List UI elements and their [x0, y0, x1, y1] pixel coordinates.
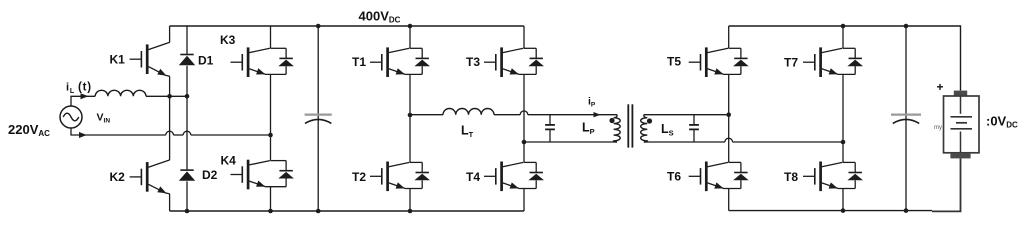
- transformer secondary dot: [647, 118, 652, 123]
- label D2: [202, 168, 218, 182]
- transformer primary winding: [614, 115, 621, 142]
- label T6: [667, 170, 681, 184]
- arrow iL current: [81, 93, 89, 99]
- label 220VAC: [8, 122, 50, 138]
- junction dots output bottom rail: [841, 208, 909, 213]
- wire secondary top: [644, 114, 729, 116]
- svg-text:T2: T2: [352, 170, 366, 184]
- label K1: [110, 53, 126, 67]
- wire K3K4 midpoint: [270, 74, 272, 160]
- transistor K1: [130, 42, 170, 76]
- wire dc bus top rail: [170, 25, 524, 27]
- label LP: [582, 121, 595, 137]
- junction dots top rail: [316, 24, 412, 29]
- wire output bottom rail: [729, 210, 932, 212]
- svg-text:+: +: [937, 80, 944, 94]
- wire T7 collector: [842, 26, 844, 48]
- battery plus sign: [937, 80, 944, 94]
- transistor T7: [803, 47, 863, 77]
- wire source top: [71, 96, 95, 106]
- transistor K2: [130, 160, 170, 194]
- transistor T8: [803, 162, 863, 192]
- label T7: [784, 56, 798, 70]
- transformer secondary winding: [641, 115, 648, 142]
- wire T1T2 midpoint: [409, 74, 411, 162]
- capacitor Cdc curved plate: [305, 119, 331, 123]
- label K2: [110, 170, 126, 184]
- svg-text:K4: K4: [221, 154, 237, 168]
- label T5: [667, 55, 681, 69]
- wire dc bus bottom rail: [170, 210, 524, 212]
- wire T3 collector: [523, 26, 525, 48]
- ac source 220VAC: [60, 106, 82, 128]
- transistor K3: [231, 47, 294, 77]
- svg-text:T3: T3: [466, 55, 480, 69]
- label LS: [661, 122, 674, 138]
- transistor K4: [231, 160, 294, 190]
- wire K1 emitter to node: [169, 76, 171, 96]
- capacitor Cp plates: [545, 125, 555, 129]
- transistor T6: [689, 162, 749, 192]
- arrow bottom wire: [79, 132, 87, 138]
- inductor input filter: [95, 90, 146, 96]
- capacitor Cdc plate: [305, 113, 332, 115]
- transistor T2: [370, 162, 430, 192]
- wire cap primary top stub: [549, 115, 551, 124]
- wire secondary bottom to T7T8: [733, 141, 844, 143]
- wire K4 emitter: [270, 187, 272, 211]
- svg-text:K1: K1: [110, 53, 126, 67]
- junction node phase B: [268, 133, 273, 138]
- transformer primary dot: [609, 118, 614, 123]
- label T2: [352, 170, 366, 184]
- svg-text:K2: K2: [110, 170, 126, 184]
- wire hop over D leg: [183, 131, 191, 135]
- junction dots bottom rail: [185, 209, 413, 214]
- label K3: [220, 33, 236, 47]
- battery top terminal: [954, 91, 967, 96]
- wire between hops: [173, 134, 183, 136]
- wire inductor to bridge: [146, 95, 187, 97]
- svg-text:T4: T4: [466, 170, 480, 184]
- label 400VDC: [359, 8, 401, 24]
- wire D2 anode: [186, 181, 188, 211]
- svg-text:D1: D1: [198, 54, 214, 68]
- wire output cap: [905, 26, 907, 211]
- wire T1 collector: [409, 26, 411, 48]
- transistor T4: [484, 162, 544, 192]
- wire hop over K leg: [166, 131, 174, 135]
- label T1: [352, 55, 366, 69]
- wire to primary: [528, 114, 617, 116]
- svg-text:T7: T7: [784, 56, 798, 70]
- svg-text:T8: T8: [784, 170, 798, 184]
- wire dc link cap: [317, 26, 319, 211]
- wire T3T4 midpoint: [523, 74, 525, 162]
- svg-text:T6: T6: [667, 170, 681, 184]
- wire primary bottom: [524, 141, 617, 143]
- inductor LT: [443, 109, 494, 115]
- wire cap primary bottom stub: [549, 130, 551, 142]
- svg-text:my: my: [934, 125, 942, 131]
- capacitor Cout curved plate: [893, 119, 919, 123]
- wire D1 anode to D2 cathode: [186, 66, 188, 170]
- capacitor Cs plates: [689, 125, 699, 129]
- label iP: [588, 96, 596, 109]
- wire K2 emitter: [169, 194, 171, 211]
- wire to K3K4 midpoint: [191, 134, 271, 136]
- wire source bottom: [71, 128, 166, 135]
- wire cap secondary bottom stub: [693, 130, 695, 142]
- label T3: [466, 55, 480, 69]
- wire T7T8 midpoint: [842, 74, 844, 162]
- battery bottom terminal: [950, 153, 970, 159]
- wire K3 collector: [270, 26, 272, 48]
- wire T4 emitter: [523, 189, 525, 212]
- wire cap secondary top stub: [693, 115, 695, 124]
- wire T8 emitter: [842, 189, 844, 211]
- svg-text:K3: K3: [220, 33, 236, 47]
- wire T6 emitter: [728, 189, 730, 211]
- label T4: [466, 170, 480, 184]
- battery case: [944, 96, 980, 153]
- wire node to K2 collector: [169, 96, 171, 160]
- wire K1 collector: [169, 26, 171, 42]
- wire to LT: [410, 114, 443, 116]
- diode D2: [179, 170, 195, 181]
- junction node phase A: [167, 94, 189, 99]
- wire LT to hop: [494, 114, 520, 116]
- svg-text:D2: D2: [202, 168, 218, 182]
- wire hop over T5T6 leg: [725, 138, 733, 142]
- wire T5T6 midpoint: [728, 74, 730, 162]
- junction node primary return: [522, 140, 527, 145]
- svg-text:T1: T1: [352, 55, 366, 69]
- junction node secondary: [726, 112, 731, 117]
- wire hop over T3T4 leg: [520, 111, 528, 115]
- transistor T1: [370, 47, 430, 77]
- junction node secondary return: [841, 140, 846, 145]
- wire T2 emitter: [409, 189, 411, 212]
- wire battery bottom lead: [932, 158, 961, 211]
- label iL(t): [66, 82, 92, 95]
- label K4: [221, 154, 237, 168]
- transistor T5: [689, 47, 749, 77]
- svg-text:T5: T5: [667, 55, 681, 69]
- diode D1: [179, 55, 195, 66]
- label 60VDC: [986, 113, 1018, 129]
- battery cells: [951, 96, 973, 153]
- wire output top rail: [729, 26, 961, 91]
- label LT: [461, 124, 474, 140]
- arrow iP current: [594, 112, 601, 117]
- label VIN: [97, 112, 111, 125]
- transistor T3: [484, 47, 544, 77]
- label T8: [784, 170, 798, 184]
- label D1: [198, 54, 214, 68]
- label my: [934, 125, 942, 131]
- wire D1 cathode: [186, 26, 188, 55]
- junction node tank: [408, 113, 413, 118]
- wire secondary bottom: [644, 141, 725, 143]
- transformer core: [628, 104, 632, 147]
- capacitor Cout plate: [891, 113, 921, 115]
- wire T5 collector: [728, 26, 730, 48]
- junction dots output top rail: [841, 24, 909, 29]
